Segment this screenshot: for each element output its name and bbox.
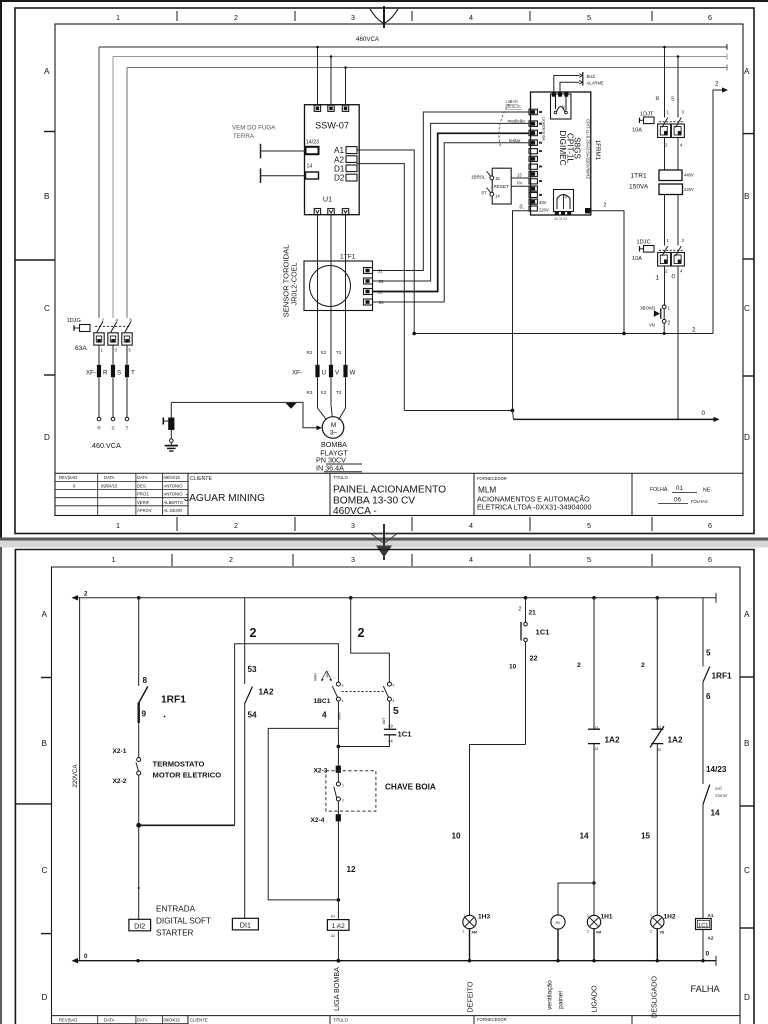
svg-text:2: 2 [650, 930, 652, 934]
svg-text:A: A [744, 67, 750, 76]
svg-text:R2: R2 [307, 350, 313, 355]
CPIT left terminal strip [529, 109, 537, 211]
svg-text:32: 32 [658, 748, 662, 752]
motor phase wires through toroid [317, 215, 319, 365]
svg-text:A2: A2 [708, 936, 714, 941]
wire drop to SSW-07 S [330, 57, 332, 106]
svg-text:1H1: 1H1 [601, 914, 613, 921]
terminal X2-4 [336, 814, 341, 821]
fold mark top center sheet1 [370, 6, 398, 28]
net 2 top bus [75, 597, 716, 599]
svg-text:MLM: MLM [478, 486, 496, 495]
selector 1BC1 column [351, 598, 390, 682]
svg-text:REV|SAD: REV|SAD [59, 475, 77, 480]
svg-text:B: B [744, 192, 750, 201]
svg-text:5: 5 [393, 706, 399, 717]
svg-text:1TF1: 1TF1 [340, 254, 356, 261]
CPIT bottom right terminal [585, 208, 591, 213]
svg-text:6: 6 [708, 521, 712, 530]
svg-text:3: 3 [342, 684, 344, 688]
svg-text:21: 21 [529, 610, 537, 617]
svg-text:6: 6 [706, 692, 711, 701]
svg-text:1: 1 [116, 13, 120, 22]
terminal XF-S [111, 365, 115, 377]
svg-text:1: 1 [656, 275, 660, 282]
inner frame sheet2 [52, 567, 741, 1024]
wire MAN contact down [337, 701, 339, 746]
svg-text:1A2: 1A2 [605, 736, 620, 745]
svg-text:A1: A1 [331, 915, 335, 919]
svg-text:2: 2 [234, 13, 238, 22]
timer NC contact 1C1 21-22 column [525, 598, 527, 622]
transformer 1TR1 150VA [659, 170, 682, 181]
svg-text:VN: VN [649, 323, 655, 328]
lamp 1H2 DESLIGADO [651, 915, 664, 928]
svg-text:CPIT-1L-0.25A/2.5A/220V/60HZ: CPIT-1L-0.25A/2.5A/220V/60HZ [586, 119, 591, 179]
svg-text:22: 22 [530, 654, 538, 663]
wire drop to SSW-07 R [317, 47, 319, 105]
svg-text:FOLHAS: FOLHAS [691, 499, 708, 504]
selector arrows MAN AUT [322, 671, 327, 680]
svg-text:C: C [744, 304, 750, 313]
thermostat column [138, 598, 140, 686]
PE tap triangle [286, 403, 297, 409]
svg-text:2: 2 [641, 662, 645, 669]
svg-text:1A2: 1A2 [668, 736, 683, 745]
svg-text:1: 1 [587, 914, 589, 918]
net 0 bottom bus [75, 960, 716, 962]
svg-text:RESET: RESET [494, 184, 510, 189]
wire A2 to net 0 [357, 160, 404, 411]
svg-text:1C1: 1C1 [698, 923, 708, 929]
svg-text:1RF1: 1RF1 [161, 695, 186, 706]
outer frame sheet2 [15, 550, 754, 1024]
svg-text:4: 4 [469, 13, 473, 22]
motor M1 BOMBA [322, 417, 344, 439]
fault column 1C1 coil [702, 598, 704, 667]
svg-text:B: B [42, 739, 48, 748]
fan branch ventilacao [592, 881, 595, 884]
svg-text:A1: A1 [708, 913, 714, 918]
svg-text:BUZ.: BUZ. [587, 74, 597, 79]
svg-text:TERRA: TERRA [233, 133, 255, 140]
svg-text:D: D [42, 993, 48, 1002]
fold mark bottom center / page2 top triangle [383, 524, 385, 560]
column numbers bottom sheet1 [116, 521, 712, 530]
svg-text:X2-4: X2-4 [311, 817, 325, 824]
svg-text:4: 4 [342, 699, 344, 703]
svg-text:14/23: 14/23 [306, 140, 319, 146]
svg-text:10: 10 [509, 664, 517, 671]
svg-text:0: 0 [672, 274, 676, 281]
svg-text:6: 6 [708, 555, 712, 564]
wires reset to CPIT [511, 177, 529, 179]
svg-text:2: 2 [358, 626, 365, 640]
svg-text:CLIENTE: CLIENTE [190, 1018, 208, 1023]
svg-text:S8GS: S8GS [573, 137, 582, 159]
svg-text:LIGA/DESLIGA: LIGA/DESLIGA [542, 117, 546, 141]
row letters sheet2 [42, 610, 751, 1002]
svg-text:D: D [744, 993, 750, 1002]
bus phase S [113, 54, 727, 60]
svg-text:2: 2 [229, 555, 233, 564]
svg-text:2: 2 [84, 591, 88, 598]
svg-text:R: R [103, 370, 108, 377]
svg-text:3~: 3~ [330, 430, 338, 437]
svg-text:4: 4 [469, 555, 473, 564]
1TF1 output terminals S1-S4 [364, 268, 373, 306]
svg-text:U: U [322, 370, 326, 377]
svg-text:1RF1: 1RF1 [712, 672, 732, 681]
svg-text:440V: 440V [684, 173, 694, 178]
svg-text:ALBERTO: ALBERTO [164, 500, 184, 505]
input terminals R S T [98, 377, 100, 417]
svg-text:B: B [44, 192, 50, 201]
svg-text:460VCA: 460VCA [356, 36, 380, 43]
scan edge left page1 [0, 0, 2, 540]
bus junction dots [137, 596, 141, 600]
svg-text:1FRM1: 1FRM1 [594, 140, 601, 161]
svg-text:DESLIGADO: DESLIGADO [650, 976, 659, 1018]
svg-text:LIGA BOMBA: LIGA BOMBA [332, 967, 341, 1011]
svg-text:C: C [44, 304, 50, 313]
svg-text:REV|SAD: REV|SAD [59, 1018, 77, 1023]
fan motor RV [551, 915, 565, 929]
svg-text:220V: 220V [539, 208, 549, 213]
terminal XF-R [97, 365, 101, 377]
svg-text:IN 36.4A: IN 36.4A [316, 463, 344, 472]
svg-text:10A: 10A [632, 256, 642, 262]
svg-text:150VA: 150VA [629, 184, 649, 191]
svg-text:14/23: 14/23 [706, 765, 727, 774]
svg-text:APROV: APROV [137, 508, 152, 513]
svg-text:X2-2: X2-2 [113, 778, 127, 785]
svg-text:R: R [656, 97, 660, 103]
svg-text:FALHA: FALHA [691, 984, 721, 994]
svg-text:1 A2: 1 A2 [332, 923, 346, 930]
svg-text:SSW-07: SSW-07 [315, 121, 349, 131]
svg-text:2: 2 [463, 930, 465, 934]
SSW-07 bottom terminals U V W [314, 209, 348, 215]
svg-text:06: 06 [674, 497, 681, 504]
selector 1BC1 AUT contact [387, 682, 391, 686]
svg-text:D2: D2 [334, 174, 345, 183]
svg-text:VEM DO FUGA: VEM DO FUGA [232, 125, 276, 132]
wire S3 to CPIT [373, 133, 530, 291]
bus phase R [99, 44, 727, 50]
svg-text:medição: medição [508, 119, 526, 124]
svg-text:TITULO: TITULO [333, 475, 349, 480]
svg-text:T: T [126, 426, 129, 431]
svg-text:DATA: DATA [104, 475, 115, 480]
svg-text:NE: NE [703, 488, 711, 494]
svg-text:10: 10 [452, 832, 462, 841]
page separation band [0, 538, 768, 541]
svg-text:8: 8 [143, 676, 148, 685]
svg-text:25: 25 [561, 105, 565, 109]
svg-text:1BC1: 1BC1 [314, 698, 331, 705]
svg-text:4: 4 [469, 521, 473, 530]
svg-text:09/04/15: 09/04/15 [164, 1018, 181, 1023]
column numbers top sheet1 [116, 13, 712, 22]
terminal XF-U [315, 365, 319, 377]
row letters sheet1 [44, 67, 750, 442]
svg-text:1: 1 [116, 521, 120, 530]
svg-text:0: 0 [706, 951, 710, 958]
svg-text:.460.VCA: .460.VCA [90, 441, 121, 450]
net 2 rail [414, 333, 713, 335]
wire 1DJC pole1 to buzzer [664, 266, 666, 305]
svg-text:LIGADO: LIGADO [590, 985, 599, 1013]
svg-text:2: 2 [250, 626, 257, 640]
CPIT bottom terminals 30 31 32 [555, 211, 559, 215]
svg-text:1BRSL: 1BRSL [471, 175, 486, 180]
svg-text:CHAVE BOIA: CHAVE BOIA [385, 783, 436, 792]
svg-text:5: 5 [587, 13, 591, 22]
svg-text:T: T [131, 370, 135, 377]
svg-text:54: 54 [248, 711, 258, 720]
svg-text:44: 44 [388, 739, 393, 744]
svg-text:1C1: 1C1 [398, 730, 413, 739]
svg-text:FOLHA.: FOLHA. [650, 487, 669, 493]
motor ground wire [171, 402, 317, 427]
svg-text:3: 3 [351, 13, 355, 22]
wire CPIT out to net 2 [591, 211, 624, 334]
svg-text:4: 4 [322, 711, 327, 720]
svg-text:30 31 32: 30 31 32 [554, 217, 567, 221]
svg-text:1DJC: 1DJC [637, 240, 651, 246]
svg-text:DATA: DATA [104, 1018, 115, 1023]
svg-text:R3: R3 [307, 390, 313, 395]
svg-text:15: 15 [641, 832, 651, 841]
svg-text:5: 5 [587, 555, 591, 564]
svg-text:T3: T3 [336, 390, 342, 395]
outer frame sheet1 [15, 8, 754, 534]
svg-text:ELETRICA LTDA -0XX31-34904000: ELETRICA LTDA -0XX31-34904000 [477, 503, 592, 512]
svg-text:1: 1 [112, 555, 116, 564]
wire 1DJC pole2 to net 0 [677, 266, 679, 419]
svg-text:AUT: AUT [382, 718, 386, 725]
svg-text:48V: 48V [539, 200, 547, 205]
contact soft starter 14/23 [703, 785, 710, 805]
title block sheet2 top [52, 1016, 741, 1024]
wires 1DJT to 1TR1 [664, 138, 666, 171]
svg-text:2: 2 [692, 327, 696, 334]
svg-text:S3: S3 [321, 390, 327, 395]
terminal XF-T [125, 365, 129, 377]
svg-text:A2: A2 [334, 156, 344, 165]
svg-text:01: 01 [676, 485, 683, 492]
terminal DI1 [232, 918, 258, 930]
svg-text:S: S [117, 370, 121, 377]
contact 1RF1 8-9 [139, 687, 148, 704]
timer contact 1C1 49-44 [388, 701, 390, 729]
svg-text:C: C [42, 866, 48, 875]
svg-text:1: 1 [668, 306, 671, 311]
svg-text:VM: VM [596, 931, 601, 935]
svg-text:DI2: DI2 [134, 921, 145, 930]
svg-text:2: 2 [342, 799, 344, 803]
svg-text:220VCA: 220VCA [72, 764, 79, 788]
svg-text:1A2: 1A2 [259, 688, 274, 697]
svg-text:3BOM1: 3BOM1 [640, 306, 656, 311]
float switch CHAVE BOIA [336, 782, 340, 786]
svg-text:ALARME: ALARME [587, 81, 604, 86]
svg-text:JR0L2-COEL: JR0L2-COEL [290, 263, 299, 306]
wire S1 to CPIT [373, 112, 530, 271]
SSW-07 top terminals R S T [314, 105, 348, 111]
ground symbol [165, 445, 178, 447]
inner frame sheet1 [55, 24, 743, 516]
svg-text:DATA: DATA [137, 1018, 148, 1023]
svg-text:15: 15 [495, 176, 500, 181]
CPIT pin ink marks [539, 111, 542, 196]
net 2 exit arrow to sheet 2 [713, 90, 723, 334]
svg-text:T2: T2 [336, 350, 342, 355]
svg-text:1H3: 1H3 [478, 914, 490, 921]
svg-text:26: 26 [564, 195, 568, 199]
svg-text:12: 12 [347, 865, 357, 874]
svg-text:24: 24 [595, 747, 599, 751]
svg-text:Starter: Starter [715, 793, 728, 798]
wire to lamp 1H3 [470, 745, 526, 916]
svg-text:1: 1 [342, 784, 344, 788]
wires breaker to XF terminals [98, 345, 100, 365]
svg-text:1C1: 1C1 [536, 628, 551, 637]
svg-text:A: A [44, 67, 50, 76]
svg-text:S: S [111, 426, 114, 431]
svg-text:2: 2 [668, 321, 671, 327]
svg-text:0,: 0, [520, 205, 524, 211]
svg-text:D1: D1 [334, 165, 345, 174]
svg-text:FORNECEDOR: FORNECEDOR [477, 1017, 507, 1022]
svg-text:PT: PT [482, 191, 488, 196]
svg-text:1H2: 1H2 [664, 914, 676, 921]
wire S2 to CPIT [373, 123, 530, 281]
svg-text:D: D [44, 433, 50, 442]
column ticks top sheet2 [172, 554, 652, 566]
CPIT top relay sub-box [551, 94, 572, 119]
wires into motor [317, 377, 319, 408]
svg-text:DES.: DES. [137, 484, 147, 489]
column ticks bottom sheet1 [177, 517, 652, 531]
svg-text:ANTONIO: ANTONIO [164, 492, 184, 497]
svg-text:2: 2 [604, 203, 607, 209]
svg-text:460VCA -: 460VCA - [333, 506, 377, 517]
CPIT top terminals [552, 92, 556, 96]
terminal DI2 [129, 919, 151, 931]
node junction to 1BC1 [136, 823, 141, 828]
svg-text:4: 4 [393, 699, 395, 703]
soft starter U1 SSW-07 [305, 105, 360, 215]
svg-text:A: A [42, 610, 48, 619]
aux contact 1A2 31-32 column [656, 598, 658, 729]
svg-text:0: 0 [84, 953, 88, 960]
svg-text:14: 14 [307, 164, 313, 170]
svg-text:A: A [744, 610, 750, 619]
svg-text:PA: PA [517, 181, 522, 186]
breaker pole boxes [94, 333, 132, 345]
svg-text:testar: testar [509, 138, 521, 143]
wire stub fuga terra 2 [260, 168, 262, 183]
wire drop to SSW-07 T [345, 68, 347, 106]
svg-text:W: W [350, 370, 356, 377]
svg-text:14: 14 [495, 194, 500, 199]
svg-text:S2: S2 [321, 350, 327, 355]
svg-text:49: 49 [388, 724, 393, 729]
svg-text:14: 14 [580, 832, 590, 841]
wire drop to 1DJT pole 1 [664, 47, 666, 118]
CPIT bottom relay sub-box [554, 190, 574, 212]
svg-text:31: 31 [658, 726, 662, 730]
wire stub fuga terra 1 [260, 144, 262, 159]
svg-text:2: 2 [519, 607, 522, 613]
svg-text:RV: RV [556, 921, 561, 925]
svg-text:painel: painel [558, 991, 565, 1009]
svg-text:STARTER: STARTER [156, 929, 194, 938]
svg-text:0: 0 [702, 410, 706, 417]
svg-text:3: 3 [351, 521, 355, 530]
wire CPIT 220V to net 0 [513, 211, 530, 411]
svg-text:VD: VD [660, 931, 665, 935]
wire left drop S [112, 57, 114, 319]
svg-text:PROJ.: PROJ. [137, 492, 149, 497]
surge arrester [170, 402, 172, 417]
svg-text:5: 5 [706, 649, 711, 658]
net 0 rail [404, 410, 512, 412]
svg-text:09/04/15: 09/04/15 [101, 484, 118, 489]
svg-text:X2-1: X2-1 [113, 748, 127, 755]
terminal XF-W [343, 365, 347, 377]
svg-text:AUT: AUT [326, 671, 330, 678]
svg-text:M: M [331, 422, 337, 429]
svg-text:3: 3 [351, 555, 355, 564]
wire drop to 1DJT pole 2 [677, 57, 679, 118]
row ticks sheet2 [15, 677, 754, 934]
svg-text:B: B [744, 739, 750, 748]
wire left drop T [126, 68, 128, 319]
wire A1 to net 2 [357, 150, 414, 334]
svg-text:14: 14 [711, 809, 721, 818]
selector link dashed [342, 691, 386, 693]
column numbers top sheet2 [112, 555, 713, 564]
lamp 1H3 DEFEITO [463, 915, 476, 928]
row ticks sheet1 [15, 132, 754, 377]
svg-text:MAN: MAN [314, 673, 318, 681]
float switch column [337, 747, 339, 766]
left rail 220VCA [79, 598, 81, 961]
svg-text:S: S [671, 97, 675, 103]
svg-text:9: 9 [393, 684, 395, 688]
svg-text:AM: AM [472, 931, 477, 935]
selector 1BC1 MAN contact 3-4 [336, 682, 340, 686]
svg-text:23: 23 [595, 726, 599, 730]
svg-text:AL.GEOR: AL.GEOR [164, 508, 183, 513]
scan edge top [0, 0, 768, 2]
svg-text:ventilação: ventilação [547, 980, 554, 1010]
svg-text:9: 9 [142, 710, 147, 719]
svg-text:XF-: XF- [292, 370, 302, 377]
svg-text:1DJG: 1DJG [67, 318, 81, 324]
svg-text:DEFEITO: DEFEITO [466, 981, 475, 1012]
svg-text:JAGUAR MINING: JAGUAR MINING [184, 493, 265, 504]
svg-text:2: 2 [234, 521, 238, 530]
svg-text:220V: 220V [684, 187, 694, 192]
wire left drop R [98, 47, 100, 318]
labels R3 S3 T3 [307, 390, 342, 395]
svg-text:soft: soft [715, 786, 723, 791]
svg-text:DIGITAL SOFT: DIGITAL SOFT [156, 917, 211, 926]
